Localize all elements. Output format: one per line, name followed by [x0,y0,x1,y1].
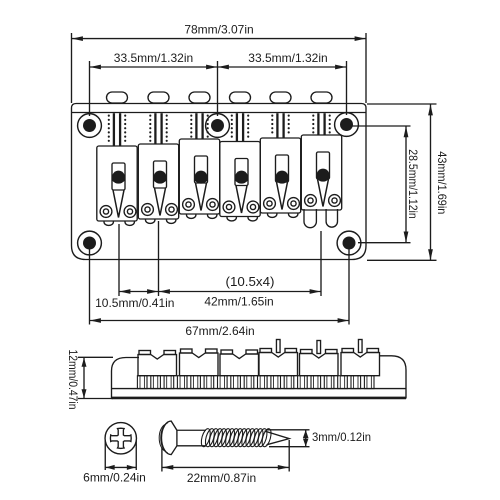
saddle 3 body [179,139,219,214]
screw shank [177,429,206,431]
saddle 1 spring and screw [113,113,115,145]
saddle 5 body [260,138,300,213]
saddle 3 spring and screw [195,113,197,138]
dim 22mm screw length [161,448,163,472]
svg-text:28.5mm/1.12in: 28.5mm/1.12in [406,149,420,219]
saddle 2 spring and screw [154,113,156,143]
saddle 2 body [138,144,178,219]
saddle 2 feet [146,219,155,223]
dim 12mm side height [78,356,113,358]
mounting holes [78,114,102,138]
svg-text:43mm/1.69in: 43mm/1.69in [435,151,449,214]
side saddle block 5 [300,354,339,376]
side view base plate [112,388,407,390]
side saddle block 1 [138,355,177,376]
saddle 6 spring and screw [317,113,319,134]
dim 42mm [320,231,322,296]
dim 6mm head diameter [104,440,106,470]
dim 33.5mm right [218,66,347,68]
svg-text:33.5mm/1.32in: 33.5mm/1.32in [248,51,327,65]
saddle 4 spring and screw [236,113,238,141]
saddle 5 feet [268,213,277,217]
saddle 4 feet [227,217,236,221]
saddle 1 feet [104,221,113,225]
screw threads coil [200,428,212,448]
side view right lip [380,356,406,399]
svg-text:67mm/2.64in: 67mm/2.64in [185,324,254,338]
svg-text:12mm/0.47in: 12mm/0.47in [66,350,78,410]
saddle 1 body [97,146,137,221]
saddle 5 spring and screw [276,113,278,137]
svg-text:33.5mm/1.32in: 33.5mm/1.32in [114,51,193,65]
side view screw legs row [137,376,147,389]
string hole ovals [107,92,128,103]
side saddle block 4 [259,353,298,376]
saddle 3 feet [187,214,196,218]
plate lip line [72,112,367,114]
dim 28.5mm hole spacing [352,125,411,127]
side saddle block 6 [341,353,380,376]
dim 3mm thread diameter [267,429,310,431]
dim 43mm height [367,103,437,105]
dim 78mm overall width [71,33,73,103]
svg-text:78mm/3.07in: 78mm/3.07in [184,23,253,37]
screw tip [265,431,290,445]
svg-text:3mm/0.12in: 3mm/0.12in [312,430,371,444]
saddle 6 body [301,135,341,210]
dim 67mm mounting hole spacing [89,244,91,325]
screw head top view [105,423,136,454]
svg-text:6mm/0.24in: 6mm/0.24in [83,471,146,485]
svg-text:22mm/0.87in: 22mm/0.87in [187,471,256,485]
svg-text:42mm/1.65in: 42mm/1.65in [204,295,273,309]
side view left lip [112,358,140,399]
phillips cross [110,428,131,448]
side saddle block 3 [220,354,259,376]
saddle 6 feet [304,209,316,228]
side saddle block 2 [180,353,219,376]
svg-text:10.5mm/0.41in: 10.5mm/0.41in [95,296,174,310]
screw side view head [162,421,177,455]
bridge plate top view [72,104,367,260]
dim 10.5mm saddle spacing [118,224,120,296]
saddle 4 body [220,142,260,217]
svg-text:(10.5x4): (10.5x4) [226,274,275,289]
dim 33.5mm left [89,61,91,116]
